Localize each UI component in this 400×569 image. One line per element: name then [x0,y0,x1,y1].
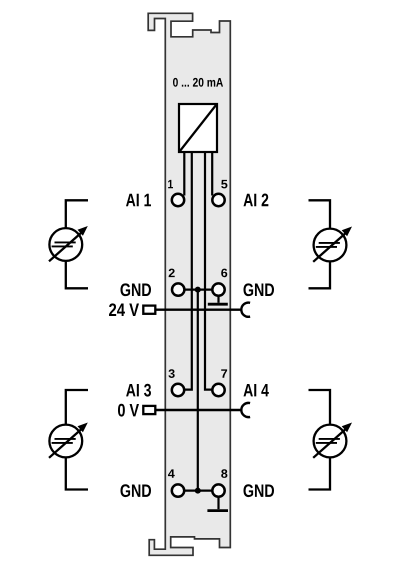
current source B2 (left bottom) [49,390,88,490]
0 V open socket arc [241,403,250,417]
pin number 7 [221,369,227,377]
variability arrow [49,232,82,261]
label AI 2 [244,194,269,207]
variability arrow [313,429,346,458]
variability arrow [313,233,346,262]
source circle [314,425,347,458]
pin number 6 [221,269,227,278]
current source B3 (right top) [309,200,353,288]
label GND left row2 [120,283,151,296]
contact 3 [172,384,184,396]
wire: box rail to contact 7 [205,152,212,390]
module body (I/O module side profile with DIN-rail hooks) [148,13,230,555]
contact 6 [212,283,224,295]
variability arrow [49,429,82,458]
pin number 5 [221,180,227,189]
source circle [314,229,347,262]
wire bracket top [66,390,88,425]
pin number 2 [169,269,175,278]
wire bracket bottom [66,457,88,489]
contact 4 [172,484,184,496]
junction node (GND row 2) [195,287,201,293]
label AI 4 [244,384,269,396]
label AI 1 [126,194,151,206]
label 0 V [118,404,139,417]
contact 7 [212,384,224,396]
0 V terminal tab [143,406,155,414]
wire bracket top [309,200,331,228]
pin number 4 [168,469,175,477]
pin number 8 [221,469,227,478]
wire: contact 2 to contact 6 [184,289,212,291]
wire bracket top [309,390,331,425]
wire: 24 V line [155,309,241,311]
wire: contact 4 to contact 8 [184,490,212,492]
range label "0 ... 20 mA" [173,78,223,87]
contact 8 [212,484,224,496]
junction node (GND row 4) [195,488,201,494]
double bar [316,243,340,247]
current source B4 (right bottom) [309,390,353,490]
label AI 3 [126,384,151,397]
24 V terminal tab [143,306,155,314]
pin number 1 [168,180,173,188]
wire bracket top [66,200,88,228]
contact 2 [172,283,184,295]
wire: center GND rail (contact 2/6 to 4/8) [197,290,199,491]
label GND right row4 [244,484,275,497]
wire: box rail to contact 3 [184,152,192,390]
source circle [49,425,82,458]
double bar [316,439,340,443]
wire: 0 V line [155,409,241,411]
label GND right row2 [244,283,275,296]
wire bracket bottom [309,261,331,288]
wire: box lead to contact 1 [183,152,185,196]
current source B1 (left top) [49,200,88,288]
wire: box lead to contact 5 [211,152,213,196]
double bar [52,242,76,246]
double bar [52,439,76,443]
ground symbol at contact 6 [208,296,228,304]
24 V open socket arc [241,303,250,317]
ground symbol at contact 8 [207,497,228,510]
source circle [49,228,82,261]
label 24 V [109,303,139,316]
A/D converter U1 box [179,104,217,152]
wire bracket bottom [309,457,331,489]
A/D converter U1 diagonal [180,105,217,152]
contact 1 [172,194,184,206]
label GND left row4 [120,484,151,497]
wire bracket bottom [66,261,88,288]
contact 5 [212,194,224,206]
pin number 3 [168,369,174,378]
